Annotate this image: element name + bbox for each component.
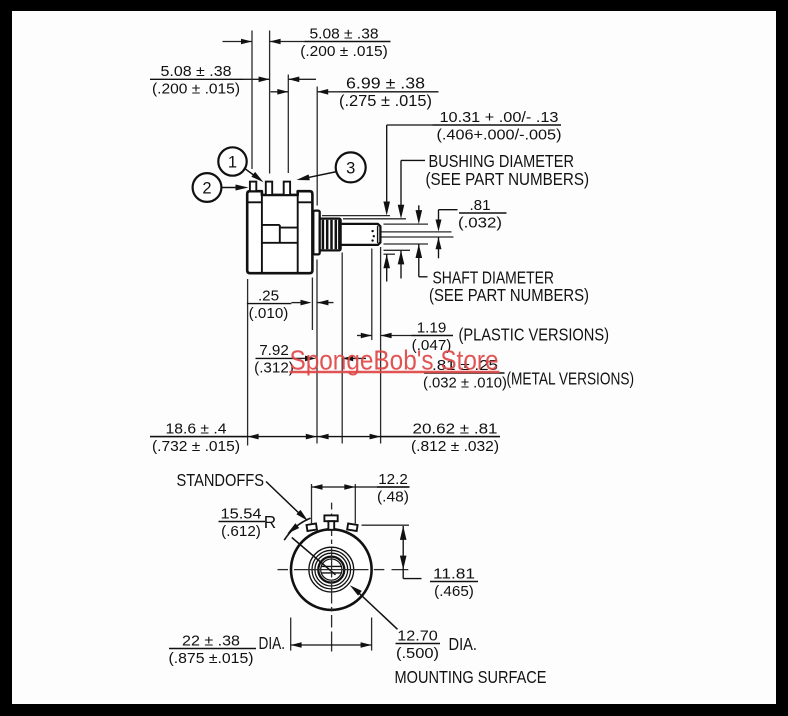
label BUSHING DIAMETER leader: [401, 159, 425, 161]
slot top line: [381, 231, 452, 233]
flange top extension: [322, 215, 390, 217]
svg-text:R: R: [264, 512, 276, 532]
svg-text:(.032): (.032): [458, 214, 502, 231]
body center detail box: [262, 224, 280, 226]
slot lines in shaft end: [321, 565, 341, 567]
svg-text:(.465): (.465): [434, 583, 474, 600]
svg-text:6.99 ± .38: 6.99 ± .38: [346, 76, 425, 93]
vertical centerline: [331, 503, 333, 510]
extension line mounting surface lower: [316, 260, 318, 444]
svg-text:DIA.: DIA.: [449, 634, 478, 654]
svg-text:15.54: 15.54: [221, 505, 262, 522]
svg-text:2: 2: [202, 180, 211, 198]
svg-text:(.200 ± .015): (.200 ± .015): [300, 43, 388, 60]
svg-text:(METAL VERSIONS): (METAL VERSIONS): [507, 369, 635, 389]
standoff right: [347, 523, 357, 531]
body inner line right: [297, 195, 299, 273]
label SHAFT DIAMETER leader: [418, 205, 420, 212]
bushing flange: [313, 211, 319, 255]
svg-text:(.406+.000/-.005): (.406+.000/-.005): [437, 126, 562, 143]
svg-text:.81: .81: [469, 197, 490, 214]
dimension 12.2 standoffs: [311, 484, 313, 524]
extension line shaft end: [380, 247, 382, 444]
extension line mounting surface upper: [316, 87, 318, 206]
svg-text:BUSHING DIAMETER: BUSHING DIAMETER: [429, 151, 575, 171]
dimension 5.08 top row: [223, 41, 253, 43]
svg-text:(.200 ± .015): (.200 ± .015): [152, 81, 240, 98]
flange bottom extension: [384, 253, 396, 255]
extension line pin2 center: [269, 31, 271, 174]
terminal label circle 3: [336, 152, 366, 182]
svg-text:(.312): (.312): [254, 360, 294, 377]
dimension 10.31 bushing leader: [387, 124, 433, 126]
svg-text:20.62 ± .81: 20.62 ± .81: [413, 420, 498, 437]
svg-text:5.08 ± .38: 5.08 ± .38: [161, 63, 232, 80]
svg-text:1: 1: [228, 154, 237, 172]
svg-text:(.032 ± .010): (.032 ± .010): [423, 374, 507, 391]
dimension 1.19 slot depth: [357, 335, 372, 337]
dimension 6.99: [271, 91, 289, 93]
dimension 11.81: [362, 524, 410, 526]
thread line: [326, 220, 329, 249]
terminal pin 3 (right): [284, 182, 290, 195]
svg-text:(.812 ± .032): (.812 ± .032): [411, 438, 499, 455]
extension line slot start: [371, 249, 373, 341]
svg-text:11.81: 11.81: [433, 565, 475, 582]
terminal pin 2 (left): [250, 182, 256, 192]
dimension 22 DIA: [290, 618, 292, 651]
svg-text:5.08 ± .38: 5.08 ± .38: [310, 25, 379, 42]
concentric rings: [309, 547, 354, 592]
svg-text:(.275 ± .015): (.275 ± .015): [339, 93, 432, 110]
dimension 12.70 DIA leader: [350, 585, 362, 595]
threaded bushing: [320, 219, 341, 251]
svg-text:12.70: 12.70: [397, 627, 438, 644]
svg-text:7.92: 7.92: [259, 342, 289, 359]
svg-text:(.010): (.010): [249, 305, 289, 322]
svg-text:(.732 ± .015): (.732 ± .015): [152, 438, 240, 455]
terminal label circle 1: [218, 147, 246, 175]
thread line: [335, 220, 338, 249]
extension line body left face: [247, 279, 249, 446]
svg-text:12.2: 12.2: [378, 471, 408, 488]
dimension 15.54 R arc: [284, 518, 310, 540]
shaft top extension: [384, 223, 429, 225]
thread line: [338, 220, 340, 249]
horizontal centerline: [278, 569, 289, 571]
terminal label circle 2: [193, 173, 222, 202]
dimension .81 slot: [439, 209, 458, 211]
shaft: [341, 224, 381, 245]
extension line pin1 center: [251, 31, 253, 170]
shaft chamfer line: [377, 226, 379, 243]
body shoulder line right: [298, 201, 313, 203]
svg-text:(.48): (.48): [377, 488, 409, 505]
svg-text:(SEE PART NUMBERS): (SEE PART NUMBERS): [426, 169, 590, 189]
svg-text:.25: .25: [258, 287, 279, 304]
leader circle3 to pin: [305, 172, 337, 179]
leader circle1 to pin: [244, 168, 259, 179]
bottom view outer circle: [291, 529, 372, 610]
standoff center tab: [324, 515, 337, 521]
terminal pin 1 (center): [266, 182, 272, 195]
thread line: [322, 220, 325, 249]
svg-text:DIA.: DIA.: [259, 633, 286, 653]
svg-text:1.19: 1.19: [417, 319, 447, 336]
15.54 R leader line to center: [287, 523, 299, 534]
svg-text:10.31 + .00/- .13: 10.31 + .00/- .13: [440, 109, 559, 126]
svg-text:(.875 ±.015): (.875 ±.015): [169, 650, 254, 667]
svg-text:(.612): (.612): [221, 523, 261, 540]
svg-text:(SEE PART NUMBERS): (SEE PART NUMBERS): [429, 285, 589, 305]
svg-text:(PLASTIC VERSIONS): (PLASTIC VERSIONS): [459, 325, 610, 345]
slot bottom line: [381, 236, 454, 238]
thread line: [330, 220, 333, 249]
potentiometer body (side view): [247, 191, 312, 273]
shaft bottom extension: [384, 243, 429, 245]
body shoulder line left: [247, 201, 262, 203]
svg-text:STANDOFFS: STANDOFFS: [177, 470, 265, 490]
standoff left: [306, 523, 316, 531]
extension line pin3 center: [287, 75, 289, 174]
thread bottom extension: [384, 249, 411, 251]
svg-text:18.6 ± .4: 18.6 ± .4: [166, 420, 227, 437]
svg-text:3: 3: [346, 160, 355, 178]
dimension 18.6 and 20.62 row: [150, 436, 500, 438]
thread top extension: [343, 218, 406, 220]
shaft slot dots: [371, 230, 373, 232]
svg-text:22 ± .38: 22 ± .38: [182, 632, 240, 649]
leader circle2 to pin: [222, 187, 240, 189]
extension line thread end: [341, 253, 343, 444]
extension line body face: [311, 278, 313, 331]
svg-text:(.500): (.500): [396, 645, 439, 662]
svg-text:MOUNTING SURFACE: MOUNTING SURFACE: [395, 667, 547, 687]
black border frame: [0, 0, 788, 11]
body inner line left: [261, 195, 263, 273]
